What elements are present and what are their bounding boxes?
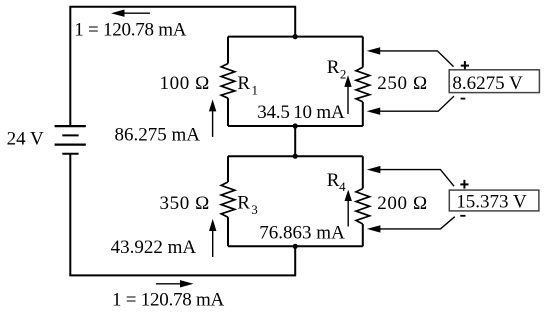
svg-text:R: R bbox=[327, 170, 340, 191]
arrow branch current R3 bbox=[209, 219, 216, 257]
arrow total current bottom (right) bbox=[156, 280, 194, 287]
arrow branch current R2 bbox=[344, 75, 351, 114]
wire connector between meshes bbox=[294, 126, 296, 156]
resistor R1 bbox=[221, 64, 235, 99]
label R3 bbox=[237, 193, 258, 218]
wire lower mesh bottom bbox=[228, 245, 363, 247]
wire top from battery to upper mesh bbox=[70, 7, 295, 126]
voltmeter box 15.373 V bbox=[449, 190, 539, 212]
arrow total current top (left) bbox=[111, 10, 150, 17]
wire upper mesh bottom bbox=[228, 125, 363, 127]
svg-text:1 = 120.78 mA: 1 = 120.78 mA bbox=[112, 289, 224, 310]
svg-text:1 = 120.78 mA: 1 = 120.78 mA bbox=[74, 19, 186, 40]
wire pointer upper voltmeter plus bbox=[367, 47, 454, 66]
arrow branch current R1 bbox=[209, 99, 216, 136]
svg-text:R: R bbox=[237, 193, 250, 214]
wire lower mesh top bbox=[228, 155, 363, 157]
wire bottom return to battery bbox=[70, 154, 295, 276]
arrow branch current R4 bbox=[345, 190, 352, 227]
label plus upper voltmeter bbox=[461, 61, 469, 69]
wire pointer lower voltmeter plus bbox=[367, 166, 454, 186]
svg-text:76.863 mA: 76.863 mA bbox=[259, 222, 345, 243]
resistor R2 bbox=[356, 67, 370, 102]
label R1 bbox=[237, 73, 258, 98]
svg-text:250 Ω: 250 Ω bbox=[377, 73, 427, 94]
svg-text:4: 4 bbox=[339, 179, 346, 194]
svg-text:100 Ω: 100 Ω bbox=[160, 73, 210, 94]
battery 24 V bbox=[55, 126, 86, 154]
node junction dot lower-mesh top bbox=[293, 154, 298, 159]
svg-text:86.275 mA: 86.275 mA bbox=[115, 124, 201, 145]
svg-text:24 V: 24 V bbox=[7, 128, 44, 149]
label R2 bbox=[327, 57, 347, 81]
node junction dot top bbox=[293, 34, 298, 39]
svg-text:R: R bbox=[237, 73, 250, 94]
svg-text:2: 2 bbox=[340, 66, 347, 81]
wire upper mesh left leads bbox=[227, 37, 229, 126]
wire upper mesh right leads bbox=[362, 37, 364, 126]
resistor R3 bbox=[221, 182, 235, 217]
wire lower mesh right leads bbox=[362, 156, 364, 246]
label minus upper voltmeter bbox=[461, 98, 466, 100]
svg-text:350 Ω: 350 Ω bbox=[160, 193, 210, 214]
node junction dot lower-mesh bottom bbox=[293, 244, 298, 249]
label R4 bbox=[327, 170, 346, 194]
wire upper mesh top bbox=[228, 36, 363, 38]
label minus lower voltmeter bbox=[460, 215, 465, 217]
label plus lower voltmeter bbox=[460, 180, 468, 189]
wire pointer lower voltmeter minus bbox=[367, 217, 455, 233]
svg-text:200 Ω: 200 Ω bbox=[377, 193, 427, 214]
svg-text:15.373 V: 15.373 V bbox=[456, 191, 527, 212]
svg-text:3: 3 bbox=[251, 202, 257, 217]
svg-text:43.922 mA: 43.922 mA bbox=[111, 237, 197, 258]
voltmeter box 8.6275 V bbox=[449, 70, 539, 94]
wire pointer upper voltmeter minus bbox=[367, 96, 454, 115]
svg-text:1: 1 bbox=[252, 83, 259, 98]
resistor R4 bbox=[356, 189, 370, 225]
wire lower mesh left leads bbox=[227, 156, 229, 246]
svg-text:8.6275 V: 8.6275 V bbox=[452, 73, 523, 94]
svg-text:34.5 10 mA: 34.5 10 mA bbox=[257, 102, 345, 123]
svg-text:R: R bbox=[327, 57, 340, 78]
node junction dot upper-mesh bottom bbox=[293, 123, 298, 128]
